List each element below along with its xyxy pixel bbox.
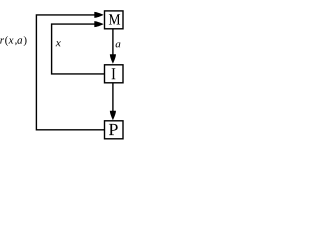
wire P to M outer feedback loop carrying r(x,a) — [36, 12, 104, 130]
wire I to P — [110, 84, 116, 121]
label x on inner loop — [56, 41, 61, 46]
box P — [105, 121, 124, 139]
wire M to I carrying a — [110, 30, 116, 64]
wire I to M inner feedback loop carrying x — [52, 21, 105, 74]
box M — [105, 11, 124, 29]
box I — [105, 65, 124, 83]
label a on wire M to I — [116, 42, 121, 47]
label r(x,a) on outer loop — [0, 36, 26, 46]
